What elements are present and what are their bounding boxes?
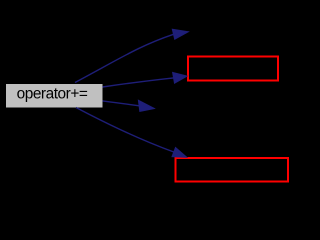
- node truncated 1 (red): [188, 57, 278, 81]
- svg-text:operator+=: operator+=: [17, 86, 88, 103]
- edge 1: [75, 29, 188, 82]
- node operator+=: [6, 84, 104, 109]
- edge 4: [76, 108, 187, 158]
- edge 2: [103, 72, 188, 87]
- node truncated 2 (red): [176, 158, 289, 182]
- edge 3: [103, 100, 155, 111]
